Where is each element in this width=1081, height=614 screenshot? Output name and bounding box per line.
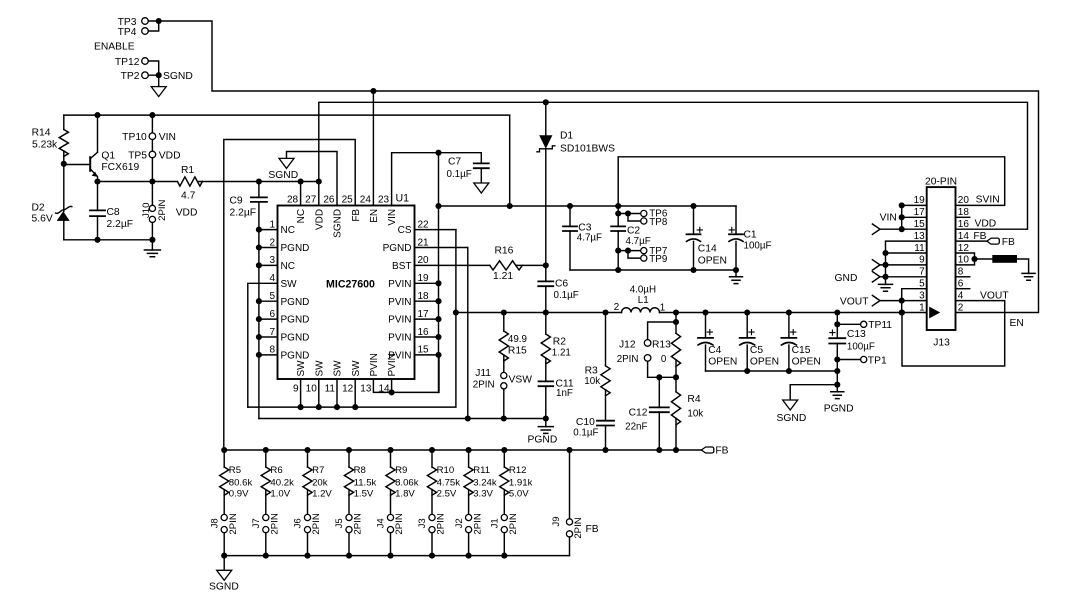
svg-text:14: 14 [958, 231, 970, 242]
wire SGND bottom bus [224, 555, 569, 557]
svg-text:R10: R10 [437, 465, 455, 476]
node VIN bus pin19 [899, 202, 905, 208]
svg-text:EN: EN [369, 209, 380, 223]
node cap gnd bus at C15 [786, 368, 792, 374]
wire J13 pin6 stub [956, 288, 970, 290]
svg-text:J5: J5 [334, 518, 345, 528]
wire FB bus [224, 449, 702, 451]
jumper J3 2PIN [429, 514, 435, 520]
svg-text:SVIN: SVIN [976, 195, 1000, 206]
capacitor C11 [539, 381, 554, 386]
svg-text:EN: EN [1010, 318, 1024, 329]
node left bus pin row [256, 298, 262, 304]
svg-text:13: 13 [914, 231, 926, 242]
svg-text:19: 19 [418, 273, 430, 284]
svg-text:40.2k: 40.2k [270, 477, 294, 488]
svg-text:18: 18 [418, 291, 430, 302]
wire VOUT return pin4 [902, 301, 1005, 366]
svg-text:J10: J10 [141, 203, 152, 218]
ground PGND under C13 [836, 385, 838, 392]
svg-text:VOUT: VOUT [840, 296, 869, 307]
svg-text:100µF: 100µF [744, 240, 772, 251]
svg-text:3: 3 [919, 290, 925, 301]
wire J10 to ground rail [151, 223, 153, 240]
svg-text:C6: C6 [555, 279, 568, 290]
svg-text:VIN: VIN [387, 209, 398, 226]
svg-text:11: 11 [325, 384, 336, 395]
svg-text:2PIN: 2PIN [508, 513, 519, 534]
svg-text:2PIN: 2PIN [311, 513, 322, 534]
node FB bus at R5 [221, 447, 227, 453]
capacitor C5 OPEN [746, 313, 748, 338]
wire EN net from TP3 to U1 pin24 and J13 pin2 [159, 21, 1039, 313]
wire U1 left ground bus [258, 230, 260, 419]
wire VIN rail to TP10 [151, 115, 153, 133]
svg-text:8: 8 [958, 267, 964, 278]
svg-text:R16: R16 [495, 246, 514, 257]
node C2 at TP6 branch [615, 210, 621, 216]
svg-text:MIC27600: MIC27600 [326, 279, 375, 291]
svg-text:0: 0 [661, 354, 667, 365]
node TP11 branch [834, 321, 840, 327]
svg-text:VDD: VDD [159, 151, 181, 162]
svg-text:R7: R7 [312, 465, 324, 476]
test point TP5 [149, 151, 156, 158]
svg-text:4.7µF: 4.7µF [626, 236, 651, 247]
node R13 top J12 branch [673, 319, 679, 325]
svg-text:11: 11 [914, 243, 925, 254]
node VIN dist at rail drop [507, 203, 513, 209]
node PVIN bus pin row [435, 352, 441, 358]
svg-text:4: 4 [958, 290, 964, 301]
svg-text:1.0V: 1.0V [270, 489, 290, 500]
wire TP3/TP4 to EN net [148, 21, 158, 31]
svg-text:18: 18 [958, 207, 970, 218]
svg-text:GND: GND [835, 273, 858, 284]
wire J13 pin8 stub [956, 276, 970, 278]
svg-text:U1: U1 [396, 193, 410, 205]
node cap bus at C2 [615, 267, 621, 273]
diode D1 SD101BWS [545, 102, 547, 135]
node PVIN bus pin row [435, 298, 441, 304]
wire TP10 to TP5 [151, 140, 153, 152]
connector J13 body [927, 187, 956, 330]
svg-text:2.2µF: 2.2µF [230, 207, 257, 218]
svg-text:SGND: SGND [209, 581, 239, 592]
wire to SGND branch [790, 385, 837, 400]
svg-text:80.6k: 80.6k [229, 477, 253, 488]
node cap bus at C1 [733, 267, 739, 273]
jumper J2 2PIN [466, 514, 472, 520]
node TP2 junction [156, 72, 162, 78]
capacitor C7 [480, 153, 482, 164]
node TP8 loop junction [625, 210, 631, 216]
wire to TP11 [837, 323, 860, 325]
svg-text:J11: J11 [475, 368, 491, 379]
svg-text:J7: J7 [251, 518, 262, 528]
node SGND bus at J5 [346, 553, 352, 559]
capacitor C15 OPEN [788, 313, 790, 338]
svg-text:1: 1 [919, 302, 925, 313]
svg-text:R14: R14 [32, 128, 51, 139]
node GND bus pin11 [882, 250, 888, 256]
transistor Q1 FCX619 [64, 164, 90, 166]
wire VDD net U1 pin27 to D1 and J13 pin16 [319, 102, 1028, 229]
wire to TP1 [837, 359, 860, 361]
node SW bus at bottom pin [298, 404, 304, 410]
svg-text:R12: R12 [509, 465, 527, 476]
node pin10/12 tie [971, 256, 977, 262]
wire FB net U1 pin25 to resistor bank [224, 140, 355, 451]
node EN at U1 pin24 riser [370, 88, 376, 94]
svg-text:100µF: 100µF [847, 342, 875, 353]
jumper J12 2PIN [648, 322, 676, 340]
svg-text:11.5k: 11.5k [354, 477, 377, 488]
node TP9 loop junction [625, 248, 631, 254]
svg-text:2: 2 [269, 237, 275, 248]
resistor R1 [177, 177, 202, 186]
node SW bus at bottom pin [352, 404, 358, 410]
resistor R8 [348, 450, 350, 467]
svg-text:5: 5 [919, 279, 925, 290]
svg-text:VIN: VIN [159, 132, 176, 143]
svg-text:3.24k: 3.24k [473, 477, 497, 488]
svg-text:19: 19 [914, 195, 926, 206]
wire tie to NET-TIE [975, 258, 993, 260]
svg-text:1nF: 1nF [556, 388, 573, 399]
wire PVIN vertical bus [438, 153, 440, 393]
node PGND bus at J11 [501, 415, 507, 421]
jumper J1 2PIN [501, 514, 507, 520]
node VDD at C9 [256, 178, 262, 184]
wire J11 to PGND bus [503, 389, 505, 419]
node left bus pin row [256, 316, 262, 322]
node FB bus at R9 [387, 447, 393, 453]
svg-text:2PIN: 2PIN [473, 380, 495, 391]
svg-text:12: 12 [958, 243, 970, 254]
node rail at R3 [602, 309, 608, 315]
node rail at C5 [744, 309, 750, 315]
svg-text:PGND: PGND [281, 333, 310, 344]
wire to TP6/TP8 [618, 214, 640, 222]
svg-text:SW: SW [314, 360, 325, 377]
node VDD at U1 pin27 [316, 178, 322, 184]
node VIN dist at C14 [690, 203, 696, 209]
node SW/CS at output rail [453, 309, 459, 315]
ground under J10 [144, 250, 160, 257]
svg-text:R15: R15 [508, 345, 527, 356]
wire J13 VIN bus pins 19/17/15 [880, 205, 927, 229]
svg-text:PGND: PGND [824, 404, 854, 415]
wire J3 to SGND bus [431, 533, 433, 556]
node FB bus at R7 [304, 447, 310, 453]
wire output cap ground bus [706, 370, 838, 372]
net arrow VOUT input [872, 295, 880, 305]
node left bus pin row [256, 334, 262, 340]
svg-text:C2: C2 [627, 225, 640, 236]
jumper J10 2PIN [149, 205, 155, 211]
test point TP11 [861, 321, 867, 327]
svg-text:2.5V: 2.5V [437, 489, 457, 500]
resistor R9 [390, 450, 392, 467]
svg-text:16: 16 [958, 219, 970, 230]
svg-text:1.8V: 1.8V [395, 489, 415, 500]
node VIN at Q1 collector [94, 112, 100, 118]
svg-text:L1: L1 [638, 295, 649, 306]
wire J13 pin14 FB stub [956, 240, 987, 242]
wire C13 bottom to ground bus [836, 360, 838, 385]
svg-text:J6: J6 [293, 518, 304, 528]
svg-text:D1: D1 [560, 131, 573, 142]
svg-text:D2: D2 [32, 203, 45, 214]
wire SW bus under U1 [248, 230, 456, 408]
svg-text:2PIN: 2PIN [157, 199, 168, 220]
resistor R4 [671, 392, 680, 425]
capacitor C4 OPEN [705, 313, 707, 338]
zener diode D2 [57, 211, 70, 221]
svg-text:R13: R13 [652, 340, 671, 351]
node PVIN bus pin row [435, 334, 441, 340]
wire U1 pin22 CS stub [415, 229, 456, 231]
svg-text:J8: J8 [209, 518, 220, 528]
node GND bus pin7 [882, 274, 888, 280]
node left bus pin row [256, 262, 262, 268]
svg-text:FB: FB [586, 524, 599, 535]
svg-text:NC: NC [281, 225, 295, 236]
wire J13 VOUT bus pins 5/3/1 [880, 289, 927, 313]
node SW bus at bottom pin [316, 404, 322, 410]
svg-text:TP1: TP1 [868, 355, 887, 366]
node EN junction at TP3 [156, 18, 162, 24]
svg-text:NC: NC [281, 261, 295, 272]
svg-text:15: 15 [914, 219, 926, 230]
node SW bus at bottom pin [334, 404, 340, 410]
resistor R2 [545, 313, 547, 335]
resistor R11 [468, 450, 470, 467]
node FB bus at R12 [501, 447, 507, 453]
node pin14 junction [389, 389, 395, 395]
wire R14 to D2 [63, 151, 65, 212]
svg-text:6: 6 [958, 279, 964, 290]
svg-text:C10: C10 [576, 417, 595, 428]
node left bus pin row [256, 227, 262, 233]
wire J4 to SGND bus [390, 533, 392, 556]
node FB bus at R8 [346, 447, 352, 453]
svg-text:TP10: TP10 [122, 132, 147, 143]
svg-text:PGND: PGND [281, 243, 310, 254]
svg-text:2PIN: 2PIN [270, 513, 281, 534]
svg-text:17: 17 [914, 207, 926, 218]
node cap gnd bus at C5 [744, 368, 750, 374]
svg-text:SGND: SGND [333, 209, 344, 238]
node GND bus pin9 [882, 262, 888, 268]
svg-text:J9: J9 [551, 516, 562, 526]
jumper J9 2PIN [569, 450, 571, 519]
svg-text:FB: FB [973, 231, 986, 242]
wire J13 GND bus pins 13/11/9/7 [880, 241, 927, 284]
net flag FB at J13 [987, 238, 999, 244]
node VDD at Q1 emitter [94, 178, 100, 184]
node Q1 base junction [61, 161, 67, 167]
resistor R15 [503, 313, 505, 332]
node rail at C15 [786, 309, 792, 315]
svg-text:C5: C5 [750, 345, 763, 356]
svg-text:12: 12 [342, 384, 354, 395]
svg-text:49.9: 49.9 [508, 334, 527, 345]
wire U1 pin28 stub [300, 182, 302, 206]
svg-text:R6: R6 [270, 465, 282, 476]
node VDD wire at J10 [149, 178, 155, 184]
svg-text:1.21: 1.21 [493, 271, 513, 282]
svg-text:PGND: PGND [281, 297, 310, 308]
capacitor C12 [658, 377, 660, 407]
resistor R10 [431, 450, 433, 467]
node rail at J13 drop [899, 309, 905, 315]
wire U1 bottom SW pin stubs 9-12 [301, 379, 356, 407]
node PVIN bus at VIN dist line [435, 203, 441, 209]
wire NET-TIE to ground [1017, 259, 1029, 273]
node FB bus at R6 [263, 447, 269, 453]
net-tie component [992, 255, 1017, 263]
svg-text:20k: 20k [312, 477, 328, 488]
svg-text:10k: 10k [584, 376, 600, 387]
node SGND bus at J4 [387, 553, 393, 559]
jumper J6 2PIN [304, 514, 310, 520]
svg-text:26: 26 [323, 195, 335, 206]
svg-text:J13: J13 [933, 338, 950, 349]
svg-text:PVIN: PVIN [388, 333, 411, 344]
capacitor C6 [545, 265, 547, 281]
node C8 bottom [94, 237, 100, 243]
svg-text:10: 10 [306, 384, 318, 395]
svg-text:7: 7 [919, 267, 925, 278]
test point TP10 [149, 133, 156, 140]
node FB bus at R3/C10 [602, 447, 608, 453]
svg-text:PVIN: PVIN [388, 315, 411, 326]
svg-text:4.0µH: 4.0µH [630, 285, 656, 296]
node TP1 branch [834, 356, 840, 362]
resistor R13 [675, 313, 677, 334]
svg-text:R4: R4 [687, 394, 700, 405]
wire L1 to VOUT rail into J13 pin1 [660, 312, 927, 314]
node C12 branch [656, 374, 662, 380]
resistor R6 [265, 450, 267, 467]
node VIN at C7 branch [435, 150, 441, 156]
test point TP12 [142, 58, 149, 65]
ground PGND under C11 [545, 419, 547, 427]
node BST at D1/R16/C6 [543, 262, 549, 268]
node rail at R13 [673, 309, 679, 315]
node PVIN bus pin row [435, 280, 441, 286]
node cap bus at C14 [690, 267, 696, 273]
svg-text:C1: C1 [744, 230, 757, 241]
svg-text:7: 7 [269, 327, 275, 338]
svg-text:28: 28 [287, 195, 299, 206]
svg-text:VOUT: VOUT [980, 290, 1009, 301]
svg-text:SW: SW [351, 360, 362, 377]
node FB bus at J9 [566, 447, 572, 453]
svg-text:TP9: TP9 [649, 254, 667, 265]
node rail at C6/R2 [543, 309, 549, 315]
wire J5 to SGND bus [348, 533, 350, 556]
wire J1 to SGND bus [503, 533, 505, 556]
svg-text:TP11: TP11 [868, 320, 892, 331]
capacitor C13 [836, 324, 838, 338]
node rail at C13 [834, 309, 840, 315]
svg-text:8: 8 [269, 345, 275, 356]
svg-text:14: 14 [378, 384, 390, 395]
svg-text:17: 17 [418, 309, 430, 320]
svg-text:PGND: PGND [528, 435, 558, 446]
svg-text:NET-TIE: NET-TIE [995, 257, 1015, 263]
test point TP6 [641, 210, 647, 216]
svg-text:R11: R11 [473, 465, 490, 476]
svg-text:VDD: VDD [314, 209, 325, 230]
svg-text:VSW: VSW [509, 375, 533, 386]
svg-text:C14: C14 [698, 243, 717, 254]
svg-text:5.6V: 5.6V [32, 214, 53, 225]
svg-text:OPEN: OPEN [708, 357, 737, 368]
svg-text:SD101BWS: SD101BWS [560, 144, 615, 155]
ground SGND resistor bank [217, 570, 232, 580]
wire U1 pin4 SW to SW bus [248, 283, 278, 407]
node PGND/SGND split [834, 382, 840, 388]
wire J8 to SGND bus [223, 533, 225, 556]
svg-text:R1: R1 [181, 165, 194, 176]
svg-text:15: 15 [418, 345, 430, 356]
svg-text:10k: 10k [687, 408, 703, 419]
svg-text:2PIN: 2PIN [353, 513, 364, 534]
wire to TP7/TP9 [618, 251, 640, 259]
svg-text:2PIN: 2PIN [228, 513, 239, 534]
node SGND bus at J3 [429, 553, 435, 559]
net arrow GND at pin7 [872, 272, 880, 282]
svg-text:22: 22 [418, 219, 430, 230]
node C2 at TP7 branch [615, 248, 621, 254]
svg-text:CS: CS [398, 225, 412, 236]
svg-text:2PIN: 2PIN [394, 513, 405, 534]
wire cap group bottom bus [570, 270, 736, 277]
svg-text:C7: C7 [448, 157, 461, 168]
wire U1 pin24 EN riser [372, 91, 374, 206]
svg-text:8.06k: 8.06k [395, 477, 419, 488]
node VDD at U1 pin28 [298, 178, 304, 184]
jumper J5 2PIN [346, 514, 352, 520]
svg-text:R9: R9 [395, 465, 407, 476]
svg-text:2PIN: 2PIN [472, 513, 483, 534]
svg-text:4.7µF: 4.7µF [577, 233, 602, 244]
svg-text:J1: J1 [490, 518, 501, 528]
svg-text:J12: J12 [619, 340, 636, 351]
svg-text:2PIN: 2PIN [617, 354, 639, 365]
resistor R7 [307, 450, 309, 467]
node SGND bus at J8 [221, 553, 227, 559]
svg-text:C9: C9 [230, 196, 243, 207]
svg-text:2PIN: 2PIN [436, 513, 447, 534]
svg-text:VIN: VIN [880, 212, 897, 223]
node VIN bus pin17 [899, 214, 905, 220]
svg-text:1.5V: 1.5V [354, 489, 374, 500]
svg-text:J3: J3 [417, 518, 428, 528]
node FB bus at R4 [673, 447, 679, 453]
wire U1 pin20 BST to R16 [415, 264, 490, 266]
svg-text:OPEN: OPEN [698, 255, 727, 266]
svg-text:0.1µF: 0.1µF [554, 290, 579, 301]
test point TP2 [142, 72, 149, 79]
wire D2 to bottom rail [63, 221, 65, 240]
svg-text:4.75k: 4.75k [437, 477, 461, 488]
test point TP9 [641, 255, 647, 261]
